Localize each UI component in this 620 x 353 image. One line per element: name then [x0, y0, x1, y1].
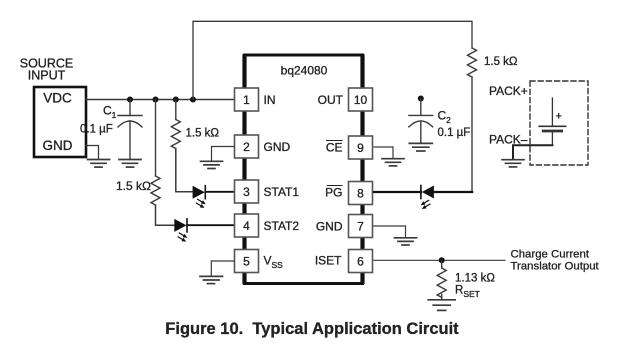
svg-text:GND: GND [264, 140, 291, 154]
svg-text:C1: C1 [103, 104, 117, 121]
svg-text:3: 3 [243, 185, 250, 199]
svg-text:VSS: VSS [264, 254, 284, 271]
pin 3 [235, 180, 259, 203]
pin 7 [349, 215, 373, 238]
LED D1 (STAT1) [193, 186, 206, 208]
label Charge Current Translator Output [511, 249, 600, 273]
svg-text:OUT: OUT [318, 93, 344, 107]
ground pin 7 [395, 238, 417, 245]
wire pin 2 GND to ground [212, 147, 235, 162]
wire pin 7 GND to ground [374, 226, 406, 237]
svg-text:9: 9 [357, 141, 364, 155]
pin 2 [235, 135, 259, 158]
wire R2 to LED D2 [156, 205, 175, 225]
svg-text:1.5 kΩ: 1.5 kΩ [116, 179, 151, 193]
svg-text:1.5 kΩ: 1.5 kΩ [186, 128, 220, 140]
svg-text:6: 6 [357, 255, 364, 269]
ground C2 [409, 143, 432, 151]
ground C1 [119, 160, 141, 168]
svg-text:C2: C2 [438, 109, 452, 126]
pin 8 [349, 182, 373, 205]
svg-text:Translator Output: Translator Output [511, 261, 600, 273]
svg-text:GND: GND [43, 138, 73, 153]
resistor R3 1.5k pull-up [468, 48, 477, 77]
svg-text:PG: PG [325, 186, 342, 200]
svg-text:INPUT: INPUT [28, 69, 66, 83]
junction dot R1 branch [173, 97, 179, 103]
pin 4 [235, 214, 259, 237]
svg-text:Figure 10. Typical Applicatio: Figure 10. Typical Application Circuit [165, 320, 459, 338]
svg-text:Charge Current: Charge Current [511, 249, 590, 261]
pin 5 [235, 250, 259, 273]
wire source GND to ground [86, 146, 99, 160]
svg-text:1.5 kΩ: 1.5 kΩ [484, 56, 518, 68]
junction dot RSET [439, 257, 445, 263]
LED D3 (PG) [421, 186, 434, 210]
wire pin 6 ISET output [374, 259, 505, 261]
svg-text:STAT2: STAT2 [264, 219, 300, 233]
pin 9 [349, 136, 373, 159]
wire pin 8 PG to LED D3 [374, 191, 421, 193]
wire top branch [193, 21, 472, 99]
ground pin 2 [201, 161, 223, 168]
svg-text:7: 7 [357, 220, 364, 234]
junction dot C2 [418, 96, 424, 102]
svg-text:IN: IN [264, 93, 276, 107]
wire D2 to pin 4 [187, 224, 234, 226]
svg-text:1: 1 [243, 93, 250, 107]
battery pack dashed box [530, 81, 588, 165]
junction dot top branch [190, 97, 196, 103]
wire VDC to pin 1 IN [86, 99, 234, 101]
svg-text:VDC: VDC [43, 91, 72, 106]
pin 6 [349, 250, 373, 273]
pin 1 [235, 88, 259, 111]
label SOURCE INPUT [20, 57, 73, 83]
ground RSET [428, 300, 455, 311]
wire pin 9 CE to ground [374, 147, 393, 158]
svg-text:ISET: ISET [315, 254, 342, 268]
svg-text:GND: GND [316, 220, 343, 234]
svg-text:10: 10 [354, 93, 368, 107]
IC U1 bq24080 body [245, 55, 363, 284]
capacitor C1 [118, 100, 142, 160]
wire R3 to LED D3 [434, 77, 472, 192]
svg-text:1.13 kΩ: 1.13 kΩ [455, 273, 495, 285]
ground pin 9 [382, 159, 404, 166]
battery cell BT1 [539, 98, 566, 145]
wire pin 5 VSS to ground [211, 261, 234, 276]
label CE (overline) [326, 141, 343, 155]
source input block [34, 87, 86, 157]
svg-text:8: 8 [357, 187, 364, 201]
svg-text:STAT1: STAT1 [264, 185, 300, 199]
resistor R2 1.5k [151, 100, 160, 205]
wire PACK- to ground [513, 145, 552, 159]
svg-text:+: + [556, 111, 562, 123]
wire R1 to LED D1 [176, 149, 193, 192]
wire D1 to pin 3 [205, 191, 234, 193]
svg-text:4: 4 [243, 219, 250, 233]
svg-text:RSET: RSET [455, 285, 480, 300]
pin 10 [349, 88, 373, 111]
junction dot C1 [127, 97, 133, 103]
LED D2 (STAT2) [174, 219, 187, 242]
svg-text:0.1 µF: 0.1 µF [438, 127, 471, 139]
label PG (overline) [325, 186, 342, 200]
ground source GND [88, 160, 110, 168]
svg-text:2: 2 [243, 140, 250, 154]
svg-text:0.1 µF: 0.1 µF [80, 124, 113, 136]
resistor RSET 1.13k [437, 260, 446, 299]
ground PACK- [502, 160, 524, 167]
resistor R1 1.5k [171, 100, 180, 149]
svg-text:PACK+: PACK+ [489, 84, 528, 98]
svg-text:CE: CE [326, 141, 343, 155]
svg-text:bq24080: bq24080 [281, 64, 328, 78]
ground pin 5 [200, 276, 223, 283]
svg-text:5: 5 [243, 255, 250, 269]
junction dot R2 branch [153, 97, 159, 103]
capacitor C2 [409, 99, 433, 144]
